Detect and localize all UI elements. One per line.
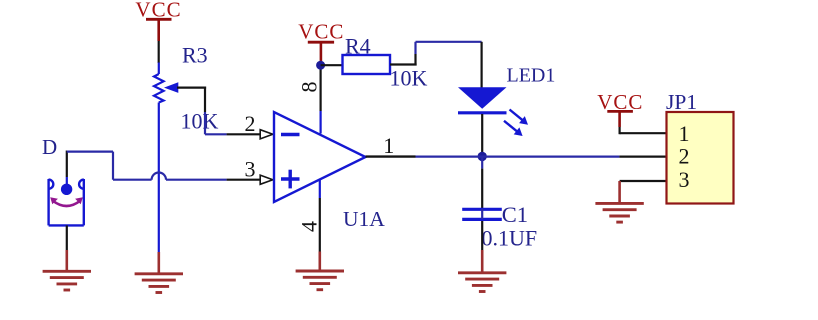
op-amp U1A [274, 112, 366, 202]
junction node (output / LED / C1) [478, 152, 487, 161]
ground (R3) [135, 274, 183, 293]
wire C1 to ground [481, 221, 483, 273]
wire sensor D to op-amp pin 3 [67, 151, 261, 185]
power symbol VCC (at JP1) [597, 90, 643, 134]
svg-text:2: 2 [245, 111, 256, 136]
wire VCC to R3 [158, 41, 160, 63]
power symbol VCC (above R4) [298, 19, 344, 62]
LED LED1 [458, 87, 528, 136]
wire node to C1 [481, 156, 483, 208]
resistor R4 [343, 55, 391, 74]
ground (C1) [458, 273, 506, 292]
sensor D (shock sensor) [49, 179, 84, 225]
svg-text:10K: 10K [390, 66, 428, 91]
op-amp pin 4 (power) [319, 180, 321, 271]
svg-text:10K: 10K [181, 108, 219, 133]
svg-text:3: 3 [245, 156, 256, 181]
svg-text:LED1: LED1 [507, 64, 556, 86]
op-amp pin 8 (power) [320, 65, 322, 134]
wire R3 to ground [158, 252, 161, 274]
wire R4 to LED1 [390, 42, 482, 88]
svg-text:8: 8 [296, 82, 321, 93]
power symbol VCC (above R3) [135, 0, 181, 41]
wire junction to R4 [321, 64, 343, 66]
ground (op-amp pin 4) [296, 271, 344, 290]
junction node (VCC / R4 / pin 8) [316, 61, 325, 70]
input arrow pin 3 [260, 175, 273, 184]
wire LED1 to output node [481, 114, 483, 152]
capacitor C1 [462, 209, 502, 219]
input arrow pin 2 [260, 130, 273, 139]
wire sensor D to ground [66, 225, 68, 271]
op-amp output pin 1 [366, 155, 416, 157]
svg-text:1: 1 [679, 121, 690, 146]
connector JP1 [667, 112, 734, 204]
svg-text:D: D [42, 135, 57, 159]
svg-text:JP1: JP1 [666, 90, 697, 114]
wire JP1 pin 3 to ground [620, 181, 667, 203]
svg-text:2: 2 [679, 144, 690, 169]
svg-text:R4: R4 [345, 34, 371, 59]
svg-text:0.1UF: 0.1UF [482, 226, 538, 251]
svg-text:C1: C1 [502, 202, 528, 227]
wire VCC to JP1 pin 1 [620, 132, 667, 134]
resistor R3 (potentiometer) [154, 63, 178, 253]
svg-text:R3: R3 [182, 43, 208, 68]
wire R3 wiper to op-amp pin 2 [177, 87, 261, 135]
svg-text:4: 4 [296, 221, 321, 232]
svg-text:1: 1 [383, 133, 394, 158]
ground (JP1 pin 3) [595, 203, 643, 222]
svg-text:VCC: VCC [298, 19, 344, 43]
svg-text:3: 3 [679, 167, 690, 192]
wire output node to JP1 pin 2 [416, 156, 667, 158]
ground (sensor D) [43, 271, 91, 290]
svg-text:U1A: U1A [343, 207, 385, 231]
